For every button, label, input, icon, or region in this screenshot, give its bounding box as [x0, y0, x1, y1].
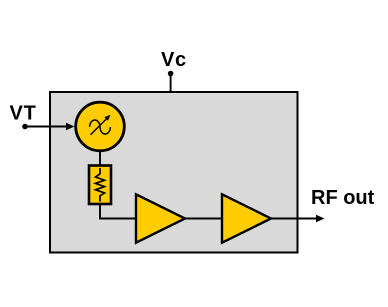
node Vc terminal dot [168, 71, 174, 77]
svg-text:RF out: RF out [311, 187, 375, 209]
wire VT to oscillator with arrowhead [25, 126, 69, 128]
resistor zigzag [96, 168, 105, 202]
svg-text:VT: VT [10, 103, 37, 125]
amplifier A2 [222, 194, 271, 242]
block outline (shaded module box) [50, 92, 298, 253]
wire oscillator to resistor [99, 150, 101, 167]
wire resistor to amplifier A1 (elbow) [100, 203, 137, 219]
oscillator U1 (VCO circle) [76, 102, 125, 151]
svg-text:Vc: Vc [161, 49, 187, 71]
sine wave symbol inside oscillator [90, 120, 111, 134]
tuning arrow inside oscillator [91, 119, 107, 135]
wire RF output with arrowhead [271, 218, 319, 220]
node VT terminal dot [22, 124, 28, 130]
resistor R1 (boxed) [89, 166, 111, 205]
amplifier A1 [136, 194, 185, 242]
wire amplifier A1 to amplifier A2 [185, 218, 223, 220]
wire Vc to box [170, 74, 172, 93]
